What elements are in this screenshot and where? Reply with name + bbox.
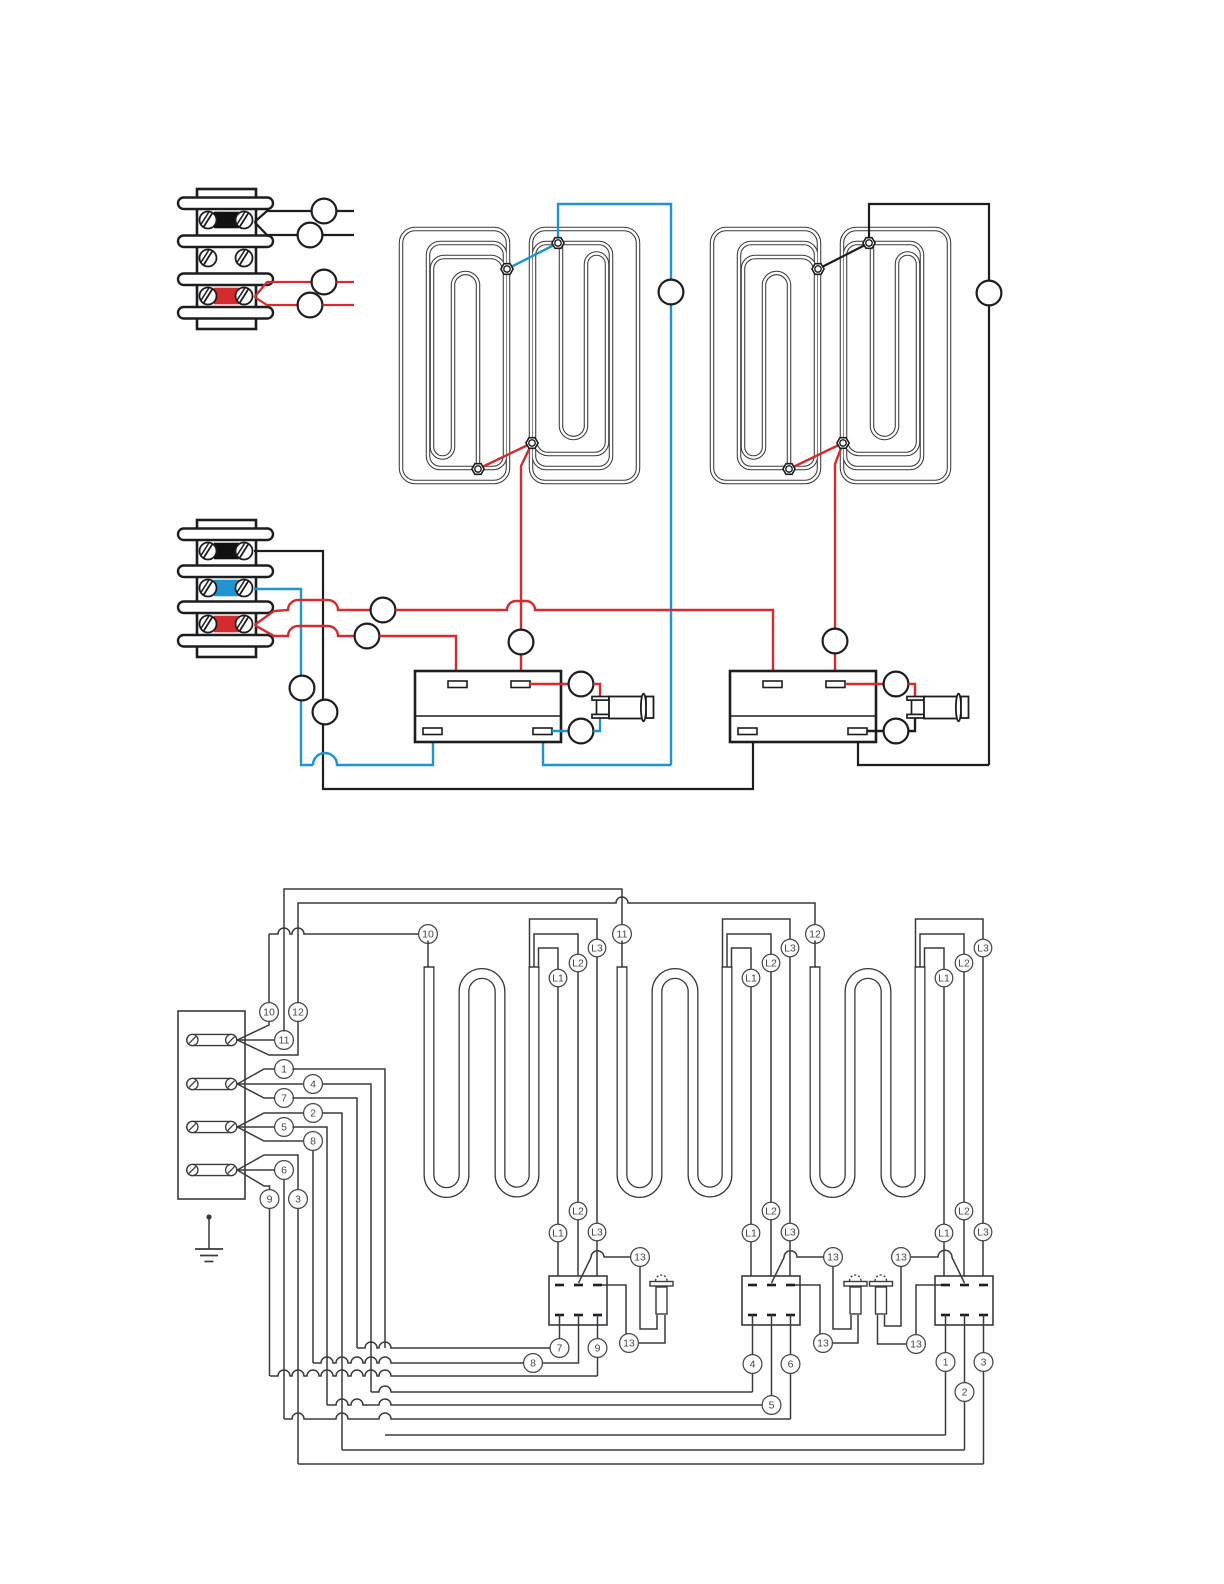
element H3 tap wires L1 L2 L3 [916,919,984,1285]
svg-text:13: 13 [910,1338,922,1350]
bulb circle top [569,672,594,697]
terminal block TB1 row 1 left screw [200,212,217,229]
wire 8 from lug 3 [237,1127,303,1141]
wire 6 from lug 4 [237,1169,276,1171]
thermostat terminal top 2 [767,1284,776,1287]
label circle 13 c [824,1248,843,1267]
label circle 7 (T1 end) [550,1339,569,1358]
terminal block TB2 row 2 right screw [236,580,253,597]
heating element E1 (left griddle element) [401,229,638,482]
wire 8 lower bus [313,1357,524,1363]
terminal block TB1 bar above row 3 [178,274,273,286]
bulb circle bottom [569,719,594,744]
wire 11 drop to element 2 [621,941,623,968]
sensing bulb tip [961,697,969,719]
thermostat divider [730,715,876,717]
svg-text:13: 13 [623,1337,635,1349]
junction box body (bottom diagram) [178,1011,245,1199]
element H2 tap wires L1 L2 L3 [723,919,791,1285]
wire T3 terminal2 to pilot (13) [911,1250,965,1283]
svg-text:11: 11 [279,1034,290,1046]
label circle 12 (element end) [806,925,825,944]
thermostat top-left terminal [763,681,782,688]
wire 2 vertical from T3 [964,1315,966,1383]
svg-text:L1: L1 [938,972,950,984]
thermostat B (right) [730,671,969,743]
svg-text:5: 5 [769,1399,775,1411]
wire 1 upper bus [292,1069,385,1348]
wire 11 riser and bus A [284,889,622,1032]
svg-text:12: 12 [809,928,821,940]
heating element E2 (right griddle element) [712,229,949,482]
label L3 bottom element H1 [588,1223,606,1241]
wire 4 vertical from T2 [752,1315,754,1355]
element H1 tap wires L1 L2 L3 [530,919,598,1285]
wire 6 riser [283,1180,285,1420]
svg-text:7: 7 [557,1342,563,1354]
heating element H3 (bottom diagram) [810,967,926,1193]
capillary flange bottom [592,714,609,718]
thermostat box (bottom diagram) [549,1276,607,1325]
wire red supply lead 2 [255,297,298,305]
wire T2 terminal2 to pilot (13) [772,1251,824,1283]
wire blue hop over black [313,734,433,765]
ground symbol [206,1214,211,1219]
label circle 13 a [631,1248,650,1267]
wire 1 from lug 2 [237,1069,275,1084]
splice circle red A [509,630,534,655]
wire 3 from lug 4 [237,1155,298,1190]
ring terminal black 2 [298,223,323,248]
svg-text:L2: L2 [765,1205,777,1217]
label circle 2 (block end) [304,1104,323,1123]
terminal block TB1 row 2 right screw [236,250,253,267]
label circle 3 (block end) [289,1190,308,1209]
thermostat terminal top 3 [593,1284,602,1287]
terminal lug [187,1164,237,1175]
terminal block TB2 row 1 #111 band [214,543,239,560]
wire to bulb bottom [552,730,569,732]
terminal lug [187,1078,237,1089]
pilot lamp PL2 [850,1275,862,1281]
wire 12 riser and bus B [298,897,815,1003]
wire 4 upper bus [322,1084,371,1392]
label circle 13 d [814,1334,833,1353]
label L2 top element H2 [762,954,780,972]
terminal block TB2 row 3 right screw [236,616,253,633]
wire black jumper E2 terminals [818,243,869,269]
wire red lower to thermostat A [379,636,456,681]
svg-text:L1: L1 [745,972,757,984]
thermostat terminal top 3 [786,1284,795,1287]
svg-text:3: 3 [295,1193,301,1205]
wire 2 lower bus [342,1449,965,1451]
svg-text:5: 5 [281,1121,287,1133]
wire 5 lower bus [327,1399,762,1405]
svg-text:L1: L1 [938,1227,950,1239]
label L3 bottom element H2 [781,1223,799,1241]
wire blue TB2 riser [254,589,313,765]
capillary flange bottom [907,714,924,718]
thermostat bottom-right terminal [848,728,867,735]
wire 9 riser [269,1209,271,1377]
wire 7 lower bus [357,1342,550,1348]
thermostat terminal bottom 3 [786,1314,795,1317]
bulb circle bottom [884,719,909,744]
svg-text:L2: L2 [572,1205,584,1217]
sensing bulb body [609,697,642,719]
svg-text:L1: L1 [552,1227,564,1239]
thermostat terminal top 2 [960,1284,969,1287]
wire black supply lead 1 [255,211,312,222]
wire T2 terminal3 to lamp [795,1285,858,1343]
thermostat box (bottom diagram) [935,1276,993,1325]
label L1 top element H3 [935,969,953,987]
ring terminal black 1 [312,199,337,224]
splice circle red B [823,629,848,654]
svg-text:9: 9 [595,1342,601,1354]
label circle 10 (element end) [419,925,438,944]
label circle 9 (T1 end) [588,1339,607,1358]
svg-text:1: 1 [281,1063,287,1075]
thermostat bottom-left terminal [423,728,442,735]
thermostat terminal top 2 [574,1284,583,1287]
svg-text:4: 4 [310,1078,316,1090]
wire blue feed to element E1 [558,204,671,765]
thermostat terminal top 3 [979,1284,988,1287]
svg-text:9: 9 [267,1193,273,1205]
wire 6 vertical from T2 [790,1315,792,1355]
label circle 8 (T1 end) [524,1354,543,1373]
terminal hex E2 inner [783,464,795,475]
wire 5 vertical from T2 [771,1315,773,1396]
pilot lamp PL1 [656,1275,668,1281]
terminal block TB1 row 3 left screw [200,288,217,305]
terminal block TB1 row 1 right screw [236,212,253,229]
terminal block TB2 row 3 #d52b30 band [214,616,239,633]
thermostat terminal top 1 [555,1284,564,1287]
terminal hex E2 right-bottom [837,438,849,449]
wire red TB2 fork upper [255,600,371,625]
ring terminal red 1 [312,270,337,295]
label circle 4 (T2 end) [743,1355,762,1374]
terminal hex E1 inner [472,464,484,475]
label L3 top element H3 [974,939,992,957]
svg-text:12: 12 [292,1006,304,1018]
wire T3 terminal1 to lamp [916,1285,941,1335]
thermostat terminal bottom 2 [767,1314,776,1317]
svg-text:10: 10 [263,1006,275,1018]
wire 13f to lamp [878,1315,907,1344]
terminal hex E1 right-top [552,238,564,249]
wire blue return to thermostat A [543,734,671,765]
label circle 6 (T2 end) [781,1355,800,1374]
svg-text:11: 11 [617,928,628,940]
svg-text:2: 2 [962,1386,968,1398]
wire 8 upper bus [312,1151,314,1364]
wire bulb bottom to capillary [593,718,600,731]
terminal hex E2 right-top [863,238,875,249]
svg-text:13: 13 [827,1251,839,1263]
svg-text:8: 8 [310,1135,316,1147]
svg-text:3: 3 [981,1356,987,1368]
label circle 13 e [892,1248,911,1267]
splice circle blue TB2 [290,676,315,701]
wire 7 vertical from T1 [559,1315,561,1339]
terminal block TB2 row 2 #2093d3 band [214,580,239,597]
thermostat top-left terminal [448,681,467,688]
label circle 10 (block end) [260,1003,279,1022]
thermostat terminal top 1 [941,1284,950,1287]
label circle 11 (element end) [613,925,632,944]
wire red jumper E1 lower terminals [478,443,532,469]
wire 1 vertical from T3 [945,1315,947,1353]
label circle 13 b [620,1334,639,1353]
label L2 bottom element H1 [569,1202,587,1220]
svg-text:2: 2 [310,1107,316,1119]
wire red jumper E2 lower terminals [789,443,843,469]
terminal block TB2 bar above row 2 [178,566,273,578]
thermostat terminal bottom 2 [960,1314,969,1317]
svg-text:L3: L3 [977,942,989,954]
wire 6 lower bus [284,1413,791,1419]
terminal block TB1 row 3 right screw [236,288,253,305]
svg-text:L2: L2 [958,957,970,969]
label L1 bottom element H1 [549,1224,567,1242]
terminal block TB1 bottom bar [178,307,273,319]
label circle 5 (block end) [275,1118,294,1137]
wire to bulb top [530,683,569,685]
wire 3 lower bus [298,1463,984,1465]
splice circle blue [659,280,684,305]
label L3 bottom element H3 [974,1223,992,1241]
terminal block TB2 row 3 left screw [200,616,217,633]
splice circle black [977,281,1002,306]
label circle 2 (T3 end) [955,1383,974,1402]
thermostat box [415,671,561,742]
svg-text:4: 4 [750,1358,756,1370]
label circle 1 (block end) [275,1060,294,1079]
terminal block TB2 bar above row 3 [178,602,273,614]
svg-text:10: 10 [422,928,434,940]
thermostat top-right terminal [826,681,845,688]
svg-text:L2: L2 [765,957,777,969]
thermostat A (left) [415,671,654,743]
capillary flange top [907,697,924,701]
bulb circle top [884,672,909,697]
label circle 5 (T2 end) [762,1396,781,1415]
terminal block TB1 row 2 left screw [200,250,217,267]
terminal block TB1 row 3 #d52b30 band [214,288,239,305]
terminal block TB1 row 1 #111 band [214,212,239,229]
wire red E1 to thermostat A [521,443,532,681]
terminal block TB2 bottom bar [178,635,273,647]
terminal lug [187,1034,237,1045]
terminal block TB2 row 1 right screw [236,543,253,560]
label L3 top element H2 [781,939,799,957]
thermostat box (bottom diagram) [742,1276,800,1325]
thermostat terminal top 1 [748,1284,757,1287]
terminal block TB2 row 2 left screw [200,580,217,597]
label circle 1 (T3 end) [936,1353,955,1372]
terminal block TB1 bar above row 1 [178,198,273,210]
splice circle black TB2 [313,700,338,725]
terminal block TB2 row 1 left screw [200,543,217,560]
label L1 top element H1 [549,969,567,987]
svg-text:L3: L3 [591,942,603,954]
wire 1 lower bus [385,1434,946,1436]
wire 7 from lug 2 [237,1084,275,1098]
label circle 8 (block end) [304,1132,323,1151]
wire bulb top to capillary [593,684,600,697]
svg-text:L3: L3 [977,1226,989,1238]
svg-text:L3: L3 [591,1226,603,1238]
thermostat top-right terminal [511,681,530,688]
sensing bulb end ring [956,694,961,722]
splice circle red upper [371,598,396,623]
label L2 bottom element H2 [762,1202,780,1220]
thermostat terminal bottom 3 [979,1314,988,1317]
svg-text:L1: L1 [552,972,564,984]
svg-text:L2: L2 [572,957,584,969]
thermostat terminal bottom 1 [941,1314,950,1317]
wire 4 from lug 2 [237,1083,304,1085]
thermostat terminal bottom 1 [748,1314,757,1317]
label circle 6 (block end) [275,1161,294,1180]
wire red supply lead 1 cont [336,281,354,283]
wire 9 lower bus [270,1370,598,1376]
pilot lamp PL3 [875,1275,887,1281]
thermostat bottom-left terminal [738,728,757,735]
wire 10 from lug 1 [237,940,269,1040]
capillary bracket [911,700,913,714]
svg-text:1: 1 [943,1356,949,1368]
terminal block TB1 bar above row 2 [178,236,273,248]
svg-text:6: 6 [281,1164,287,1176]
svg-text:L2: L2 [958,1205,970,1217]
wire red supply lead 1 [255,282,312,297]
wire 4 lower bus [371,1386,753,1392]
terminal block TB1 body [197,189,256,329]
thermostat box [730,671,876,742]
wire blue jumper E1 terminals [507,243,558,269]
wire black feed to element E2 [869,204,989,765]
svg-text:13: 13 [895,1251,907,1263]
sensing bulb tip [646,697,654,719]
label circle 4 (block end) [304,1075,323,1094]
thermostat terminal bottom 2 [574,1314,583,1317]
terminal hex E1 top [501,264,513,275]
wire 7 upper bus [292,1098,357,1348]
svg-text:7: 7 [281,1092,287,1104]
wire 8 vertical from T1 [543,1315,579,1363]
wire T1 terminal2 to pilot (13) [579,1251,631,1283]
label L1 top element H2 [742,969,760,987]
label circle 3 (T3 end) [974,1353,993,1372]
capillary bracket [596,700,598,714]
wire 12 drop to element 3 [814,941,816,968]
label L2 bottom element H3 [955,1202,973,1220]
label L3 top element H1 [588,939,606,957]
svg-text:13: 13 [817,1337,829,1349]
terminal lug [187,1121,237,1132]
label circle 13 f [907,1335,926,1354]
wire red upper to thermostat B [395,601,773,681]
thermostat terminal bottom 3 [593,1314,602,1317]
label L2 top element H3 [955,954,973,972]
wire black supply lead 2 cont [322,234,354,236]
sensing bulb end ring [641,694,646,722]
wire 10 drop to element 1 [427,941,429,968]
terminal hex E2 top [812,264,824,275]
thermostat terminal bottom 1 [555,1314,564,1317]
svg-text:L3: L3 [784,942,796,954]
thermostat divider [415,715,561,717]
wire 11 from lug 1 [237,1039,276,1041]
svg-text:L3: L3 [784,1226,796,1238]
svg-text:8: 8 [530,1357,536,1369]
wire 12 from lug 1 [237,1021,298,1055]
wire 13e to lamp [885,1267,902,1327]
wire 3 riser [297,1209,299,1465]
wire 13a to lamp [640,1267,657,1330]
heating element H1 (bottom diagram) [424,967,540,1193]
label L1 bottom element H2 [742,1224,760,1242]
wire black supply lead 2 [255,222,298,235]
svg-text:6: 6 [788,1358,794,1370]
wire red E2 to thermostat B [835,443,843,681]
wire to bulb top [845,683,884,685]
wire 10 bus to element 1 [269,928,422,934]
wire 2 upper bus [322,1113,342,1450]
wire 9 from lug 4 [237,1170,269,1190]
label L1 bottom element H3 [935,1224,953,1242]
svg-text:L1: L1 [745,1227,757,1239]
wire black return to thermostat B [858,734,989,765]
heating element H2 (bottom diagram) [617,967,733,1193]
wire red supply lead 2 cont [322,304,354,306]
label circle 7 (block end) [275,1089,294,1108]
label L2 top element H1 [569,954,587,972]
wire bulb bottom to capillary [908,718,915,731]
wire black supply lead 1 cont [336,210,354,212]
wire 5 upper bus [292,1127,327,1405]
wire to bulb bottom [867,730,884,732]
wire 5 from lug 3 [237,1126,276,1128]
capillary flange top [592,697,609,701]
label circle 12 (block end) [289,1003,308,1022]
wire 13c to lamp [833,1267,851,1330]
wire T1 terminal3 to lamp [602,1285,665,1343]
wire 2 from lug 3 [237,1113,303,1127]
sensing bulb body [924,697,957,719]
wire bulb top to capillary [908,684,915,697]
wire red TB2 fork lower [255,625,355,636]
svg-text:13: 13 [634,1251,646,1263]
label circle 11 (block end) [275,1031,294,1050]
terminal hex E1 right-bottom [526,438,538,449]
thermostat bottom-right terminal [533,728,552,735]
ring terminal red 2 [298,293,323,318]
wire 3 vertical from T3 [983,1315,985,1353]
splice circle red lower [355,624,380,649]
terminal block TB2 body [197,520,256,657]
wire 9 vertical from T1 [597,1315,599,1339]
wire black TB2 to thermostat B [254,551,753,789]
terminal block TB2 bar above row 1 [178,529,273,541]
label circle 9 (block end) [260,1190,279,1209]
